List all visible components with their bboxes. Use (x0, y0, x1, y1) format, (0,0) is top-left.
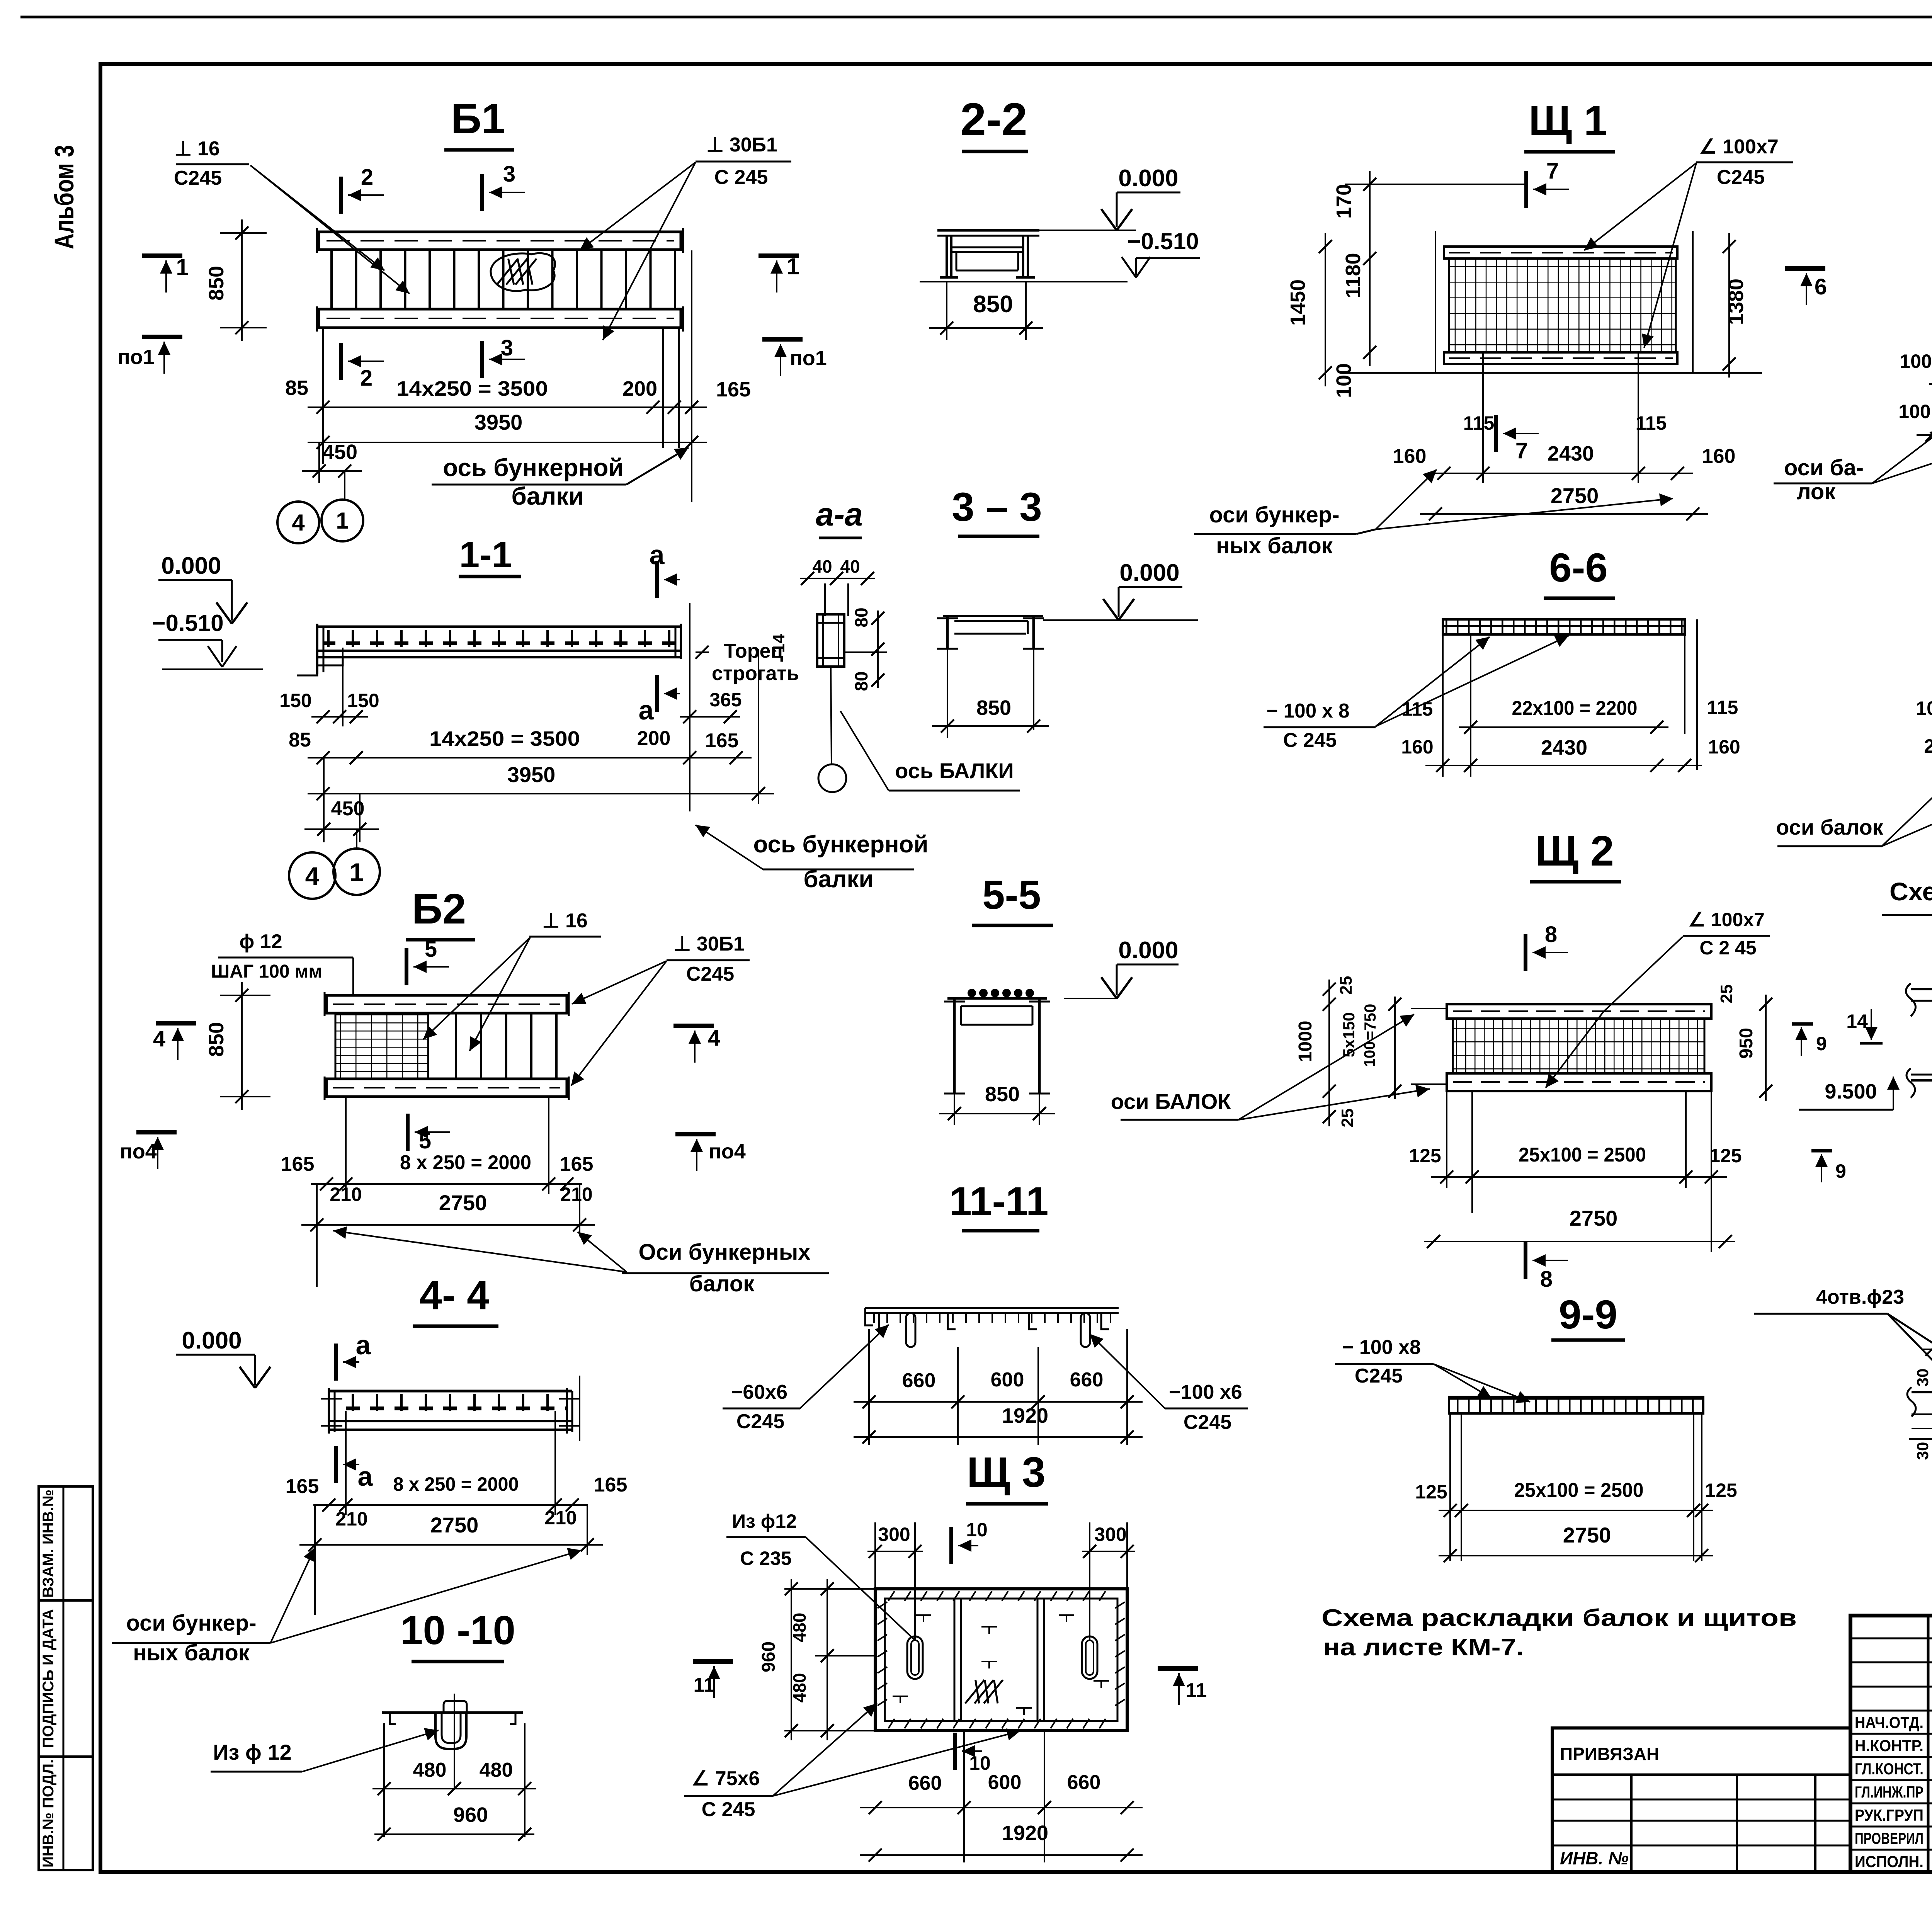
svg-text:Б2: Б2 (412, 885, 466, 933)
svg-text:Оси бункерных: Оси бункерных (638, 1240, 810, 1265)
svg-text:125: 125 (1409, 1145, 1441, 1167)
svg-text:600: 600 (991, 1369, 1024, 1391)
svg-text:150: 150 (347, 690, 379, 711)
svg-text:ных балок: ных балок (1216, 533, 1333, 558)
svg-text:25: 25 (1338, 1109, 1357, 1128)
svg-text:С245: С245 (686, 963, 734, 985)
svg-text:балки: балки (803, 866, 873, 893)
svg-text:ось БАЛКИ: ось БАЛКИ (895, 759, 1014, 783)
svg-text:Альбом 3: Альбом 3 (49, 145, 79, 249)
svg-text:0.000: 0.000 (1119, 560, 1179, 586)
svg-text:−60х6: −60х6 (731, 1381, 787, 1403)
svg-text:по1: по1 (790, 347, 827, 370)
svg-text:4: 4 (305, 862, 320, 890)
svg-text:115: 115 (1636, 412, 1667, 434)
svg-text:ИНВ.№ ПОДЛ.: ИНВ.№ ПОДЛ. (40, 1759, 57, 1867)
svg-text:оси БАЛОК: оси БАЛОК (1111, 1089, 1231, 1114)
svg-text:Щ 2: Щ 2 (1535, 827, 1614, 875)
svg-text:660: 660 (1067, 1771, 1101, 1794)
svg-text:25: 25 (1337, 976, 1355, 995)
svg-text:ПРИВЯЗАН: ПРИВЯЗАН (1560, 1744, 1659, 1764)
svg-text:200: 200 (622, 377, 657, 400)
svg-text:850: 850 (976, 696, 1011, 719)
svg-text:2: 2 (361, 165, 373, 190)
svg-text:8: 8 (1540, 1267, 1553, 1292)
svg-text:С245: С245 (1355, 1365, 1403, 1387)
svg-text:2750: 2750 (430, 1513, 479, 1537)
svg-text:1180: 1180 (1342, 253, 1365, 298)
svg-text:С245: С245 (1717, 166, 1765, 189)
svg-text:2750: 2750 (1570, 1206, 1618, 1230)
svg-text:a-a: a-a (816, 496, 862, 532)
svg-text:25: 25 (1717, 985, 1736, 1003)
svg-text:балки: балки (511, 482, 583, 510)
svg-text:балок: балок (689, 1271, 755, 1296)
svg-text:850: 850 (205, 266, 228, 301)
svg-text:300: 300 (1094, 1524, 1126, 1545)
svg-text:960: 960 (759, 1641, 779, 1672)
svg-text:165: 165 (594, 1474, 628, 1496)
svg-text:100: 100 (1361, 1041, 1378, 1067)
svg-text:25х100 = 2500: 25х100 = 2500 (1519, 1144, 1646, 1166)
svg-text:Схема отверстии в монорельс: Схема отверстии в монорельсе (1889, 877, 1932, 906)
svg-text:25х100 = 2500: 25х100 = 2500 (1514, 1479, 1644, 1502)
svg-text:850: 850 (205, 1022, 228, 1057)
svg-text:по4: по4 (709, 1140, 746, 1163)
svg-text:160: 160 (1393, 445, 1427, 468)
svg-text:170: 170 (1332, 184, 1355, 219)
svg-text:=750: =750 (1361, 1004, 1379, 1041)
svg-text:3: 3 (501, 335, 513, 361)
svg-text:11: 11 (1186, 1679, 1207, 1702)
svg-text:850: 850 (973, 291, 1013, 318)
svg-text:480: 480 (413, 1759, 447, 1781)
svg-text:ось бункерной: ось бункерной (443, 454, 624, 481)
svg-text:ϕ 12: ϕ 12 (239, 930, 282, 953)
svg-text:1: 1 (176, 254, 189, 280)
svg-text:на листе КМ-7.: на листе КМ-7. (1323, 1634, 1524, 1661)
svg-text:5-5: 5-5 (982, 872, 1041, 918)
svg-text:1: 1 (336, 508, 349, 534)
svg-text:ИНВ. №: ИНВ. № (1560, 1848, 1629, 1868)
svg-text:Щ 3: Щ 3 (967, 1449, 1046, 1496)
svg-text:85: 85 (285, 376, 308, 400)
svg-text:9: 9 (1816, 1033, 1827, 1054)
svg-text:3950: 3950 (474, 410, 523, 434)
svg-text:5: 5 (419, 1128, 431, 1153)
svg-text:строгать: строгать (712, 662, 799, 685)
svg-text:9: 9 (1835, 1160, 1846, 1182)
svg-text:160: 160 (1708, 736, 1740, 758)
svg-text:С 2 45: С 2 45 (1699, 937, 1756, 959)
svg-text:⊥ 30Б1: ⊥ 30Б1 (706, 134, 777, 156)
svg-text:115: 115 (1402, 698, 1433, 720)
svg-text:ГЛ.ИНЖ.ПР: ГЛ.ИНЖ.ПР (1855, 1783, 1923, 1801)
svg-text:3950: 3950 (507, 762, 556, 787)
svg-text:100: 100 (1332, 363, 1355, 398)
svg-text:−100 х6: −100 х6 (1169, 1381, 1242, 1403)
svg-text:ИСПОЛН.: ИСПОЛН. (1855, 1852, 1923, 1871)
svg-text:9-9: 9-9 (1559, 1292, 1617, 1337)
svg-text:80: 80 (851, 607, 871, 627)
svg-text:125: 125 (1709, 1145, 1742, 1167)
svg-text:7: 7 (1546, 158, 1559, 184)
svg-text:40: 40 (812, 556, 832, 577)
svg-text:С245: С245 (736, 1410, 784, 1433)
svg-text:40: 40 (840, 556, 860, 577)
svg-text:2750: 2750 (1563, 1523, 1611, 1547)
svg-text:1920: 1920 (1002, 1821, 1048, 1845)
svg-text:ВЗАМ. ИНВ.№: ВЗАМ. ИНВ.№ (40, 1490, 57, 1598)
svg-text:150: 150 (279, 690, 311, 711)
svg-text:ПРОВЕРИЛ: ПРОВЕРИЛ (1855, 1829, 1923, 1847)
svg-text:ПОДПИСЬ И ДАТА: ПОДПИСЬ И ДАТА (40, 1609, 57, 1748)
svg-text:160: 160 (1401, 736, 1433, 758)
svg-text:80: 80 (851, 671, 871, 691)
svg-text:4отв.ϕ23: 4отв.ϕ23 (1816, 1286, 1904, 1308)
svg-text:3: 3 (503, 162, 515, 187)
svg-text:a: a (358, 1461, 373, 1492)
svg-text:4- 4: 4- 4 (420, 1273, 490, 1318)
svg-text:оси бункер-: оси бункер- (126, 1611, 256, 1636)
svg-text:− 100 х 8: − 100 х 8 (1267, 700, 1350, 722)
svg-text:165: 165 (716, 378, 751, 401)
svg-text:С245: С245 (1184, 1411, 1231, 1434)
svg-text:100: 100 (1898, 401, 1930, 422)
svg-text:∠ 100х7: ∠ 100х7 (1699, 136, 1779, 158)
svg-text:∠ 75х6: ∠ 75х6 (692, 1767, 760, 1790)
svg-text:165: 165 (286, 1475, 319, 1498)
svg-text:4: 4 (153, 1026, 165, 1051)
svg-text:Щ 1: Щ 1 (1529, 97, 1607, 145)
svg-text:1: 1 (350, 858, 364, 886)
svg-text:−0.510: −0.510 (152, 610, 223, 636)
svg-text:С245: С245 (174, 167, 222, 189)
svg-text:100: 100 (1900, 350, 1932, 372)
svg-text:1-1: 1-1 (459, 534, 512, 575)
svg-text:1450: 1450 (1286, 279, 1310, 326)
svg-text:8: 8 (1545, 922, 1557, 947)
svg-text:∠ 100х7: ∠ 100х7 (1688, 909, 1765, 930)
svg-text:− 100 х8: − 100 х8 (1342, 1336, 1421, 1359)
svg-text:100: 100 (1916, 697, 1932, 719)
svg-text:600: 600 (988, 1771, 1022, 1794)
svg-text:8 х 250 = 2000: 8 х 250 = 2000 (393, 1473, 519, 1495)
svg-text:2430: 2430 (1548, 442, 1594, 465)
svg-text:−0.510: −0.510 (1127, 228, 1199, 254)
svg-text:⊥ 16: ⊥ 16 (174, 138, 220, 160)
svg-text:1920: 1920 (1002, 1404, 1048, 1427)
svg-text:365: 365 (709, 689, 742, 711)
svg-text:210: 210 (544, 1507, 577, 1529)
svg-text:a: a (650, 540, 665, 570)
svg-text:200: 200 (637, 727, 671, 750)
svg-text:165: 165 (281, 1153, 315, 1175)
svg-text:2: 2 (360, 366, 372, 391)
svg-text:115: 115 (1463, 412, 1495, 434)
svg-text:11: 11 (694, 1674, 715, 1696)
svg-text:450: 450 (323, 440, 357, 464)
svg-text:10: 10 (966, 1519, 988, 1541)
svg-text:1: 1 (786, 253, 799, 279)
svg-text:30: 30 (1913, 1369, 1932, 1387)
svg-text:2-2: 2-2 (960, 94, 1027, 145)
svg-text:по4: по4 (120, 1140, 157, 1163)
svg-text:0.000: 0.000 (1118, 937, 1178, 964)
svg-text:НАЧ.ОТД.: НАЧ.ОТД. (1855, 1713, 1923, 1731)
svg-text:5х150: 5х150 (1340, 1012, 1358, 1058)
svg-text:25: 25 (1924, 735, 1932, 757)
svg-text:14х250 = 3500: 14х250 = 3500 (429, 727, 580, 750)
svg-text:ось бункерной: ось бункерной (753, 831, 928, 858)
svg-text:С 245: С 245 (1283, 729, 1337, 752)
svg-text:С 245: С 245 (702, 1798, 755, 1821)
svg-text:14: 14 (769, 634, 788, 653)
svg-text:160: 160 (1702, 445, 1736, 468)
svg-text:5: 5 (425, 937, 437, 962)
svg-text:10 -10: 10 -10 (400, 1608, 515, 1653)
svg-text:ШАГ 100 мм: ШАГ 100 мм (211, 961, 322, 982)
svg-text:2750: 2750 (1551, 483, 1599, 508)
svg-text:0.000: 0.000 (161, 553, 221, 579)
svg-text:ных балок: ных балок (133, 1640, 250, 1665)
svg-text:1380: 1380 (1725, 279, 1748, 325)
svg-text:480: 480 (789, 1673, 810, 1703)
svg-text:1000: 1000 (1295, 1021, 1316, 1062)
svg-text:a: a (639, 695, 654, 725)
svg-text:0.000: 0.000 (182, 1327, 241, 1354)
svg-text:10: 10 (969, 1752, 991, 1774)
svg-text:300: 300 (878, 1524, 910, 1545)
svg-text:125: 125 (1705, 1480, 1737, 1501)
svg-text:850: 850 (985, 1083, 1020, 1106)
svg-text:оси бункер-: оси бункер- (1209, 502, 1339, 527)
svg-text:210: 210 (560, 1184, 592, 1205)
svg-text:2750: 2750 (439, 1190, 487, 1215)
svg-text:115: 115 (1707, 697, 1738, 718)
svg-text:14: 14 (1846, 1010, 1868, 1032)
svg-text:по1: по1 (117, 345, 155, 369)
svg-text:30: 30 (1913, 1442, 1932, 1460)
svg-text:480: 480 (789, 1613, 810, 1643)
svg-text:2430: 2430 (1541, 736, 1587, 759)
svg-text:Б1: Б1 (451, 95, 505, 143)
svg-text:660: 660 (1070, 1369, 1104, 1391)
svg-text:Н.КОНТР.: Н.КОНТР. (1855, 1736, 1923, 1755)
svg-text:6-6: 6-6 (1549, 545, 1608, 590)
svg-text:a: a (356, 1330, 371, 1360)
svg-text:0.000: 0.000 (1118, 165, 1178, 192)
svg-text:С 235: С 235 (740, 1548, 791, 1569)
svg-text:С 245: С 245 (714, 166, 768, 189)
svg-text:960: 960 (453, 1803, 488, 1827)
svg-text:14х250 = 3500: 14х250 = 3500 (396, 377, 548, 400)
svg-text:22х100 = 2200: 22х100 = 2200 (1512, 697, 1638, 719)
svg-text:660: 660 (902, 1369, 936, 1392)
svg-text:11-11: 11-11 (949, 1179, 1049, 1224)
svg-text:Схема раскладки балок и щит: Схема раскладки балок и щитов (1321, 1605, 1797, 1631)
svg-text:оси балок: оси балок (1776, 815, 1883, 839)
svg-text:оси ба-: оси ба- (1784, 455, 1864, 480)
svg-text:950: 950 (1736, 1028, 1757, 1059)
svg-text:⊥ 30Б1: ⊥ 30Б1 (673, 933, 745, 955)
svg-text:9.500: 9.500 (1825, 1080, 1877, 1103)
svg-text:Из ϕ12: Из ϕ12 (732, 1510, 797, 1532)
svg-text:ГЛ.КОНСТ.: ГЛ.КОНСТ. (1855, 1760, 1923, 1778)
svg-text:4: 4 (708, 1026, 720, 1051)
svg-text:⊥ 16: ⊥ 16 (542, 910, 588, 932)
svg-text:125: 125 (1415, 1481, 1447, 1503)
svg-text:660: 660 (908, 1772, 942, 1794)
svg-text:7: 7 (1515, 438, 1528, 463)
svg-text:Из ϕ 12: Из ϕ 12 (213, 1740, 291, 1764)
svg-text:РУК.ГРУП: РУК.ГРУП (1855, 1806, 1923, 1824)
svg-text:85: 85 (289, 729, 311, 751)
svg-text:3 – 3: 3 – 3 (952, 485, 1042, 530)
svg-text:165: 165 (560, 1153, 594, 1175)
svg-text:4: 4 (292, 510, 305, 536)
svg-text:165: 165 (705, 730, 739, 752)
svg-text:6: 6 (1815, 274, 1827, 299)
svg-text:8 х 250 = 2000: 8 х 250 = 2000 (400, 1151, 531, 1174)
svg-text:210: 210 (335, 1508, 367, 1530)
svg-text:480: 480 (480, 1759, 513, 1781)
